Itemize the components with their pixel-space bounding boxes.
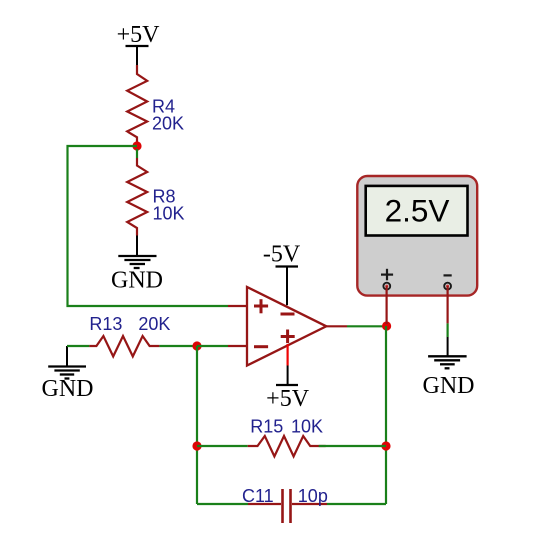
op-amp U1 [247, 287, 326, 366]
label R13 20K [89, 314, 170, 334]
ground (left, at R13) [42, 346, 94, 402]
node C (output junction) [382, 321, 391, 330]
minus terminal hole [446, 285, 449, 288]
power +5V (top) [117, 22, 161, 65]
resistor R8 [127, 149, 147, 236]
wire meter + terminal to node C [386, 286, 388, 324]
label C11 10p [242, 486, 328, 506]
svg-text:GND: GND [111, 268, 163, 294]
minus terminal mark [444, 274, 452, 276]
node E (feedback right) [381, 441, 390, 450]
wire node B to op-amp - input [197, 345, 228, 347]
svg-text:-5V: -5V [263, 242, 301, 268]
wire R15 to node E [319, 445, 386, 447]
ground (below R8) [111, 256, 163, 294]
svg-text:+5V: +5V [117, 22, 161, 48]
capacitor C11 [248, 489, 327, 523]
op-amp U1 input pin stubs [228, 306, 247, 346]
power -5V (op-amp V- top) [263, 242, 301, 306]
resistor R4 [127, 65, 147, 146]
plus terminal hole [385, 285, 388, 288]
plus terminal mark [381, 274, 393, 276]
svg-text:R13: R13 [89, 314, 122, 334]
wire node B down to node D and C11 [196, 346, 198, 504]
wire output to node C [347, 325, 386, 327]
label R15 10K [250, 417, 323, 437]
wire meter - terminal to right ground [447, 286, 449, 356]
wire R13 to node B [159, 345, 197, 347]
power +5V (op-amp V+ bottom) [266, 344, 310, 412]
svg-text:20K: 20K [138, 314, 170, 334]
op-amp output pin stub [326, 325, 347, 327]
svg-text:C11: C11 [242, 486, 274, 506]
node B (inverting input junction) [192, 341, 201, 350]
wire node D to R15 [197, 445, 248, 447]
svg-text:GND: GND [42, 376, 94, 402]
svg-text:2.5V: 2.5V [385, 192, 450, 228]
wire left ground to R13 [67, 345, 89, 347]
svg-text:20K: 20K [152, 114, 184, 134]
svg-text:+5V: +5V [266, 386, 310, 412]
resistor R13 [89, 336, 159, 356]
voltmeter body [357, 176, 477, 296]
wire node D leg to C11 [197, 503, 248, 505]
svg-text:GND: GND [423, 373, 475, 399]
wire node A to op-amp + input [68, 146, 229, 306]
svg-text:10K: 10K [153, 204, 185, 224]
node A (R4/R8 junction) [132, 141, 141, 150]
wire C11 to node E leg [327, 503, 386, 505]
svg-text:R15: R15 [250, 417, 283, 437]
label R8 10K [153, 187, 185, 224]
node D (feedback left) [192, 441, 201, 450]
svg-text:10p: 10p [298, 486, 328, 506]
label R4 20K [152, 97, 184, 134]
svg-text:10K: 10K [291, 417, 323, 437]
wire R8 to ground [136, 236, 138, 257]
resistor R15 [248, 436, 326, 456]
ground (right, at meter) [423, 356, 475, 399]
wire node C down to node E and C11 [385, 326, 387, 504]
